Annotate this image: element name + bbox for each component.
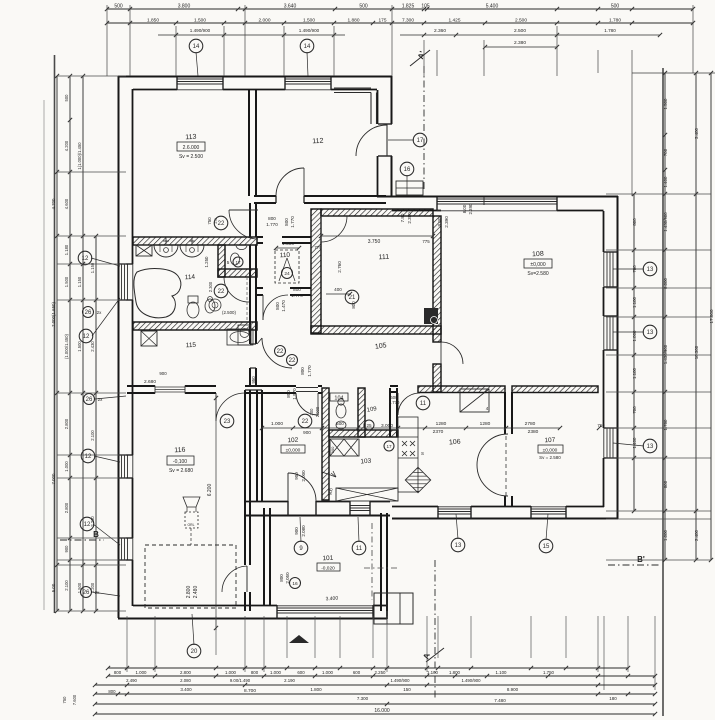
- ref 17 porch door: [413, 133, 427, 147]
- svg-text:26: 26: [86, 397, 93, 403]
- right dim col D: [710, 73, 712, 560]
- svg-text:2.800: 2.800: [186, 586, 192, 599]
- svg-text:750: 750: [207, 217, 212, 225]
- door hall-108: [441, 342, 463, 364]
- terrace window top: [437, 198, 557, 200]
- svg-text:1.750: 1.750: [543, 670, 555, 675]
- wall 110 top y240: [257, 236, 263, 238]
- svg-text:21: 21: [349, 295, 356, 301]
- svg-text:1.180: 1.180: [64, 244, 69, 255]
- ref 22 102 door: [298, 414, 312, 428]
- svg-text:950: 950: [251, 376, 256, 384]
- svg-text:900: 900: [159, 371, 167, 376]
- sink diagonal unit: [405, 467, 430, 492]
- door 101-102: [287, 473, 289, 501]
- svg-text:22: 22: [218, 221, 225, 227]
- svg-text:1.780: 1.780: [609, 18, 621, 24]
- dims kitchen chain: [262, 427, 560, 429]
- washbasin 1: [154, 245, 178, 257]
- svg-text:20: 20: [191, 649, 198, 655]
- window bottom 106: [438, 508, 471, 510]
- window W top-mid: [285, 78, 331, 80]
- window right 2: [606, 316, 608, 350]
- svg-text:800: 800: [275, 302, 280, 310]
- svg-text:1.500: 1.500: [64, 276, 69, 287]
- svg-text:2.230: 2.230: [90, 516, 95, 527]
- svg-text:2370: 2370: [433, 429, 444, 435]
- svg-text:ORL: ORL: [188, 523, 195, 527]
- ref 17 103: [384, 441, 394, 451]
- door 110 opening+arc: [262, 295, 264, 320]
- svg-text:17.600: 17.600: [709, 309, 714, 323]
- svg-text:2.500: 2.500: [514, 28, 526, 34]
- swing dash corridor: [246, 277, 248, 324]
- svg-text:17: 17: [417, 138, 424, 144]
- svg-text:3.750: 3.750: [368, 239, 381, 245]
- svg-text:1.400: 1.400: [632, 437, 637, 449]
- bottom dim row 3: [95, 684, 655, 686]
- porch west wall: [391, 76, 393, 124]
- right dim col B: [664, 73, 666, 560]
- svg-text:2.0: 2.0: [213, 217, 218, 223]
- dims room 111: [321, 235, 433, 237]
- svg-text:5.00: 5.00: [51, 583, 56, 592]
- svg-text:3.400: 3.400: [325, 596, 338, 603]
- svg-text:2.360: 2.360: [434, 28, 446, 34]
- svg-text:8.00: 8.00: [462, 204, 467, 213]
- svg-text:7.600: 7.600: [72, 694, 77, 705]
- left extension stubs: [57, 75, 126, 77]
- svg-text:1.200: 1.200: [90, 582, 95, 593]
- svg-text:1.500: 1.500: [77, 582, 82, 593]
- bench 103 south: [336, 488, 398, 501]
- svg-text:7.300: 7.300: [357, 696, 369, 701]
- svg-text:2.6.000: 2.6.000: [183, 145, 200, 151]
- stair symbol hall: [460, 389, 489, 412]
- svg-text:500: 500: [336, 421, 344, 426]
- right dim col C: [695, 73, 697, 560]
- svg-text:Sv = 2.580: Sv = 2.580: [539, 455, 561, 460]
- svg-text:800: 800: [114, 670, 122, 675]
- svg-text:1.000: 1.000: [64, 461, 69, 472]
- svg-text:1.000: 1.000: [225, 670, 237, 675]
- svg-text:16: 16: [404, 167, 411, 173]
- hatched wall 102/103-104: [322, 388, 329, 500]
- svg-text:1.100: 1.100: [496, 670, 508, 675]
- bottom dim row 5: [95, 713, 655, 715]
- svg-text:2.080: 2.080: [180, 678, 191, 683]
- wall 106-107: [504, 392, 506, 434]
- door hall arc: [257, 367, 262, 369]
- door corridor-113 arc: [229, 210, 258, 239]
- hatched wall bottom of 111: [311, 326, 441, 334]
- left dim col 1: [56, 76, 58, 611]
- wall under 110: [257, 287, 263, 289]
- dim 1500 110: [276, 247, 299, 249]
- svg-text:104: 104: [334, 396, 343, 402]
- hatched wall left of 111: [311, 209, 321, 333]
- svg-text:1.100: 1.100: [632, 296, 637, 308]
- svg-text:1.770: 1.770: [290, 216, 295, 228]
- svg-text:760: 760: [597, 423, 605, 428]
- svg-text:13: 13: [647, 267, 654, 273]
- svg-text:108: 108: [532, 251, 544, 259]
- svg-text:800: 800: [284, 218, 289, 226]
- svg-text:5: 5: [227, 260, 230, 265]
- svg-text:6.200: 6.200: [207, 484, 213, 497]
- svg-text:175: 175: [378, 18, 386, 24]
- svg-text:25: 25: [366, 423, 372, 428]
- label 104: [330, 393, 348, 401]
- svg-text:500: 500: [359, 4, 368, 10]
- svg-text:116: 116: [174, 447, 186, 455]
- cupboard on band: [136, 245, 152, 256]
- svg-text:1.770: 1.770: [291, 293, 303, 298]
- ref 20 bottom: [187, 644, 201, 658]
- svg-text:107: 107: [544, 437, 556, 445]
- door corridor-bath arc: [224, 277, 249, 302]
- window left wall 2: [121, 455, 123, 478]
- ref 12 left1: [78, 251, 92, 265]
- svg-text:1.490/900: 1.490/900: [299, 28, 320, 33]
- svg-text:800: 800: [351, 301, 356, 309]
- svg-text:4.600: 4.600: [64, 198, 69, 209]
- svg-text:1.500: 1.500: [194, 18, 206, 24]
- svg-text:23: 23: [224, 419, 231, 425]
- svg-text:1.800: 1.800: [449, 670, 461, 675]
- bottom ext stubs: [126, 616, 128, 672]
- bidet 114: [205, 299, 215, 313]
- svg-text:2x: 2x: [97, 310, 103, 315]
- section B right: [608, 564, 660, 566]
- svg-text:1.000: 1.000: [322, 670, 334, 675]
- svg-text:11: 11: [356, 546, 363, 552]
- toilet 104: [336, 404, 346, 418]
- svg-text:1.000: 1.000: [663, 529, 668, 541]
- svg-text:800: 800: [108, 689, 116, 694]
- dim 6200 in 116: [215, 395, 217, 630]
- svg-text:-0,020: -0,020: [321, 566, 335, 572]
- hatched wall bottom of 114: [133, 322, 257, 330]
- svg-text:1.250: 1.250: [204, 256, 209, 268]
- svg-text:7.480: 7.480: [494, 698, 506, 703]
- svg-text:1.770: 1.770: [307, 365, 312, 377]
- ref 12 left2: [81, 449, 95, 463]
- door arc 102 top: [317, 393, 319, 415]
- svg-text:7.000: 7.000: [51, 473, 56, 485]
- section A bottom: [434, 560, 436, 700]
- svg-text:2.300: 2.300: [208, 281, 213, 292]
- svg-text:Sv = 2.680: Sv = 2.680: [169, 468, 193, 474]
- exterior left wall: [118, 76, 120, 618]
- ref 26 left2: [84, 394, 95, 405]
- svg-text:7.000(1.650): 7.000(1.650): [51, 302, 56, 327]
- svg-text:1.800: 1.800: [310, 687, 322, 692]
- svg-text:1.430/900: 1.430/900: [663, 212, 668, 232]
- svg-text:16.000: 16.000: [374, 708, 390, 714]
- ref 13 right1: [643, 262, 657, 276]
- chimney stand 116: [183, 497, 200, 507]
- svg-text:1.780: 1.780: [663, 419, 668, 431]
- ref 22 hall: [287, 355, 298, 366]
- svg-text:110: 110: [280, 252, 291, 260]
- window bottom 107: [531, 508, 566, 510]
- svg-text:600: 600: [297, 670, 305, 675]
- svg-text:150: 150: [403, 687, 411, 692]
- svg-text:1.000: 1.000: [271, 421, 283, 427]
- wall 115-hall: [249, 333, 251, 344]
- wc bottom hatched wall: [218, 269, 257, 277]
- svg-text:B': B': [637, 555, 645, 564]
- ref 13 right3: [643, 439, 657, 453]
- svg-text:1280: 1280: [436, 421, 447, 427]
- hatched wall 104-109: [358, 388, 365, 437]
- door 102 opening: [296, 387, 318, 389]
- left dim col 3: [82, 76, 84, 611]
- svg-text:2.100: 2.100: [90, 430, 95, 441]
- svg-text:26: 26: [83, 590, 90, 596]
- ref 13 bottom 106: [451, 538, 465, 552]
- svg-text:7.80: 7.80: [400, 213, 405, 222]
- laundry sink 115: [227, 329, 253, 345]
- svg-text:14: 14: [193, 44, 200, 50]
- bottom dim row 4: [95, 693, 655, 695]
- svg-text:14: 14: [304, 44, 311, 50]
- svg-text:800: 800: [293, 287, 301, 292]
- svg-text:26: 26: [85, 310, 92, 316]
- svg-text:(2.500): (2.500): [222, 310, 236, 315]
- door 106-107 arc: [477, 434, 508, 496]
- svg-text:2.430: 2.430: [90, 341, 95, 352]
- entry door mat: [396, 181, 423, 195]
- svg-text:±0,000: ±0,000: [286, 448, 301, 454]
- svg-text:17: 17: [235, 260, 241, 265]
- svg-text:9.00/1.490: 9.00/1.490: [230, 678, 251, 683]
- bottom dim row 1: [108, 667, 628, 669]
- ref 9 101: [294, 541, 308, 555]
- sink 115 corner: [238, 325, 251, 345]
- section B left: [60, 539, 104, 541]
- svg-text:±0,000: ±0,000: [543, 448, 558, 454]
- door hall-106 arc: [397, 393, 399, 415]
- svg-text:1.470: 1.470: [281, 300, 286, 312]
- svg-text:900: 900: [294, 472, 299, 480]
- svg-text:2.800: 2.800: [64, 418, 69, 429]
- hob burners: [402, 441, 407, 446]
- svg-text:Sv = 2.500: Sv = 2.500: [179, 154, 203, 160]
- right dim col A: [633, 194, 635, 511]
- svg-text:1.100: 1.100: [632, 367, 637, 379]
- spine wall under 112: [254, 195, 276, 197]
- ref 44 hall: [275, 346, 286, 357]
- svg-text:400: 400: [334, 287, 342, 292]
- ref 14 window left: [189, 39, 203, 53]
- svg-text:17: 17: [386, 444, 392, 449]
- svg-text:2.250: 2.250: [375, 670, 387, 675]
- svg-text:2.760: 2.760: [337, 261, 342, 273]
- svg-text:8.700: 8.700: [244, 688, 256, 694]
- svg-text:2.380: 2.380: [407, 212, 412, 224]
- svg-text:(1.000/1.450): (1.000/1.450): [64, 333, 69, 359]
- svg-text:2.000: 2.000: [258, 18, 270, 24]
- svg-text:2x: 2x: [98, 397, 104, 402]
- svg-text:1.490/900: 1.490/900: [190, 28, 211, 33]
- room 101 right wall: [380, 513, 382, 611]
- 101 entry arrow: [289, 635, 309, 643]
- top dim row 1: [107, 8, 693, 10]
- hatched wall top of 114/wc: [133, 237, 257, 245]
- svg-text:500: 500: [114, 4, 123, 10]
- svg-text:3.800: 3.800: [178, 4, 191, 10]
- svg-text:2.080: 2.080: [301, 525, 306, 537]
- svg-text:800: 800: [663, 480, 668, 488]
- dash lines 101: [371, 523, 373, 600]
- svg-text:180: 180: [609, 696, 617, 701]
- right extension stubs: [606, 193, 711, 195]
- svg-text:1.500: 1.500: [282, 241, 294, 247]
- svg-text:22: 22: [289, 358, 296, 364]
- svg-text:111: 111: [378, 254, 389, 262]
- top dim row 2: [107, 22, 693, 24]
- scan page edge right: [662, 68, 664, 716]
- hall south wall y386: [127, 385, 155, 387]
- svg-text:1.880: 1.880: [347, 18, 359, 24]
- washing machine 115: [141, 331, 157, 346]
- svg-text:1.770: 1.770: [389, 400, 400, 405]
- svg-text:13: 13: [647, 444, 654, 450]
- toilet 114: [187, 302, 199, 318]
- svg-text:8.00: 8.00: [437, 217, 442, 226]
- wall x250 corridor: [249, 203, 251, 237]
- svg-text:103: 103: [360, 458, 372, 466]
- svg-text:3.400: 3.400: [694, 127, 699, 139]
- ref 22 corridor: [214, 216, 228, 230]
- svg-text:113: 113: [185, 134, 197, 142]
- svg-text:2.000: 2.000: [315, 406, 320, 417]
- svg-text:3.400: 3.400: [180, 687, 192, 692]
- svg-text:±0,000: ±0,000: [530, 262, 545, 268]
- ref 26 left: [83, 307, 94, 318]
- svg-text:12: 12: [83, 334, 90, 340]
- svg-text:4.700: 4.700: [51, 198, 56, 210]
- window 101-103: [350, 505, 370, 507]
- svg-text:700: 700: [632, 406, 637, 414]
- ref 17 wc: [233, 257, 243, 267]
- svg-text:1.000: 1.000: [632, 330, 637, 342]
- wall 113-112: [248, 89, 250, 196]
- svg-text:900: 900: [330, 446, 335, 453]
- niche 112 top-right: [334, 87, 371, 89]
- wc toilet: [231, 253, 240, 265]
- svg-text:1.770: 1.770: [266, 222, 278, 227]
- svg-text:Sv=2.580: Sv=2.580: [527, 271, 548, 277]
- svg-text:7.300: 7.300: [402, 18, 414, 24]
- ref 22 bath door: [214, 284, 228, 298]
- svg-text:1.425: 1.425: [448, 18, 460, 24]
- svg-text:1(1.000)/1.450: 1(1.000)/1.450: [77, 142, 82, 170]
- svg-text:1.970: 1.970: [292, 388, 297, 400]
- svg-text:1.490/900: 1.490/900: [390, 678, 410, 683]
- svg-text:102: 102: [287, 437, 299, 445]
- bottom wall south wing: [118, 618, 387, 620]
- svg-text:11: 11: [420, 401, 427, 407]
- svg-text:1.850: 1.850: [147, 18, 159, 24]
- svg-text:8.000: 8.000: [663, 277, 668, 289]
- svg-text:106: 106: [449, 439, 461, 447]
- window bottom 101: [277, 607, 373, 609]
- window left wall 3: [121, 538, 123, 560]
- scan page edge left: [54, 55, 56, 613]
- svg-text:800: 800: [251, 670, 259, 675]
- door arc into 112: [303, 168, 305, 196]
- cupboard 103: [330, 439, 359, 456]
- svg-text:22: 22: [218, 289, 225, 295]
- wall 116 right lower part: [244, 592, 246, 611]
- ref 14 window mid: [300, 39, 314, 53]
- door 116-101: [246, 566, 248, 592]
- exterior top wall: [118, 76, 392, 78]
- ref 15 bottom 107: [539, 539, 553, 553]
- washbasin 2: [180, 245, 204, 257]
- svg-text:780: 780: [632, 265, 637, 273]
- kitchen counter 106: [398, 417, 418, 492]
- svg-text:2.680: 2.680: [144, 379, 156, 385]
- wc small basin: [236, 246, 247, 250]
- hatched wall top of 111: [321, 209, 433, 216]
- svg-text:1.000: 1.000: [270, 670, 282, 675]
- svg-text:2380: 2380: [528, 429, 539, 435]
- svg-text:900: 900: [64, 545, 69, 553]
- svg-text:300: 300: [309, 408, 314, 416]
- basin 104b: [336, 421, 346, 429]
- svg-text:2.800: 2.800: [180, 670, 192, 675]
- exterior bottom wall right wing: [392, 518, 618, 520]
- svg-text:800: 800: [279, 574, 284, 582]
- ref 26 left3: [81, 587, 92, 598]
- svg-text:2.390: 2.390: [468, 203, 473, 215]
- room 101 left wall: [263, 508, 265, 606]
- svg-text:800: 800: [268, 216, 276, 221]
- svg-text:13: 13: [647, 330, 654, 336]
- svg-text:1.825: 1.825: [402, 4, 415, 10]
- svg-text:115: 115: [186, 342, 197, 350]
- svg-text:800: 800: [300, 367, 305, 375]
- door hall-115: [155, 386, 185, 388]
- svg-text:2.390: 2.390: [444, 216, 449, 228]
- svg-text:1.500: 1.500: [77, 341, 82, 352]
- svg-text:101: 101: [322, 555, 334, 563]
- svg-text:750: 750: [62, 696, 67, 704]
- svg-text:-0,100: -0,100: [173, 459, 187, 465]
- ref 25 109: [364, 420, 374, 430]
- fireplace 108: [424, 308, 438, 324]
- ref 13 right2: [643, 325, 657, 339]
- wall y386 kitchen side: [390, 385, 398, 387]
- hatched wall under 104/109: [329, 430, 398, 437]
- svg-text:2.000: 2.000: [301, 470, 306, 482]
- ref 11 kitchen: [416, 396, 430, 410]
- wc left hatched wall: [218, 245, 225, 277]
- svg-text:10.300: 10.300: [694, 345, 699, 359]
- svg-text:5.400: 5.400: [486, 4, 499, 10]
- svg-text:2.480: 2.480: [193, 586, 199, 599]
- svg-text:2.400: 2.400: [694, 529, 699, 541]
- steps at 101: [374, 593, 413, 624]
- svg-text:800: 800: [286, 390, 291, 398]
- wall right of 109: [389, 388, 391, 437]
- svg-text:1.500: 1.500: [663, 98, 668, 110]
- ref 12 left3: [80, 517, 94, 531]
